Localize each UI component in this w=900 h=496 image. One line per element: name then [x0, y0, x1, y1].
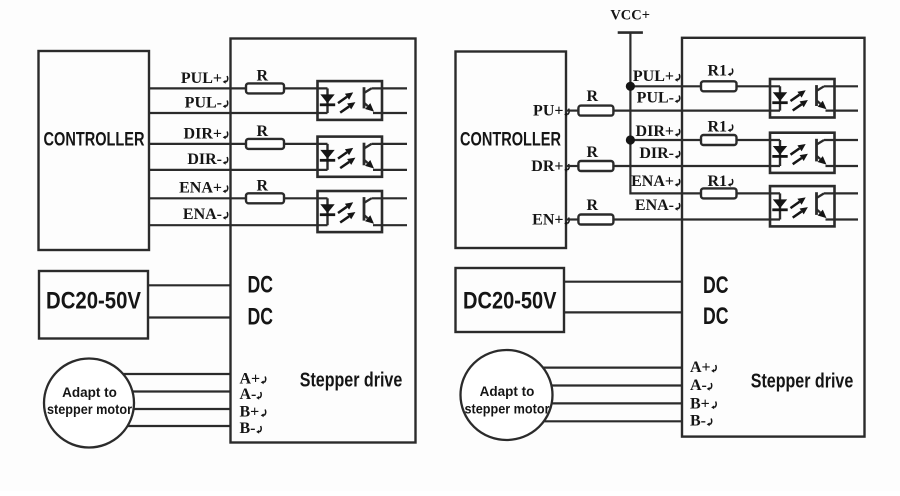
svg-text:stepper motor: stepper motor — [47, 402, 133, 417]
terminal label B- left — [240, 420, 262, 437]
value label R ena right — [586, 197, 598, 214]
value label R ena left — [256, 177, 268, 194]
wire motor A+ left — [100, 373, 231, 375]
terminal label A- right — [690, 377, 712, 394]
svg-text:VCC+: VCC+ — [610, 8, 650, 24]
resistor R1 ena — [701, 188, 737, 198]
wire PU+ resistor to opto — [613, 109, 780, 111]
svg-text:DIR-: DIR- — [639, 145, 674, 162]
resistor R pulse left — [246, 83, 284, 93]
terminal label A+ right — [690, 359, 716, 376]
svg-text:B-: B- — [690, 413, 706, 430]
net label PUL+ left — [181, 70, 228, 87]
svg-text:R: R — [256, 123, 268, 140]
resistor R dir left — [246, 139, 284, 149]
svg-text:DIR+: DIR+ — [636, 123, 674, 140]
svg-text:DC20-50V: DC20-50V — [463, 288, 557, 315]
wire U5 collector out — [824, 139, 858, 141]
svg-text:DIR+: DIR+ — [184, 126, 222, 143]
terminal label A- left — [240, 386, 262, 403]
svg-text:B+: B+ — [690, 396, 710, 413]
value label R dir right — [586, 144, 598, 161]
svg-text:R: R — [256, 67, 268, 84]
svg-text:R1: R1 — [707, 119, 727, 136]
svg-text:Adapt to: Adapt to — [62, 385, 117, 400]
svg-text:CONTROLLER: CONTROLLER — [460, 129, 561, 151]
net label DIR+ left — [184, 126, 228, 143]
wire DR+ to resistor — [566, 165, 578, 167]
controller box left — [39, 51, 150, 250]
power label VCC+ — [610, 8, 650, 24]
svg-text:PU+: PU+ — [533, 103, 563, 120]
wire DIR+ resistor to opto — [737, 139, 781, 141]
wire PU+ to resistor — [566, 109, 578, 111]
pin label EN+ — [532, 212, 569, 229]
wire motor B- left — [100, 425, 231, 427]
wire ENA+ from controller — [149, 197, 246, 199]
optocoupler U3 — [318, 191, 383, 232]
wire U1 emitter out — [373, 112, 407, 114]
wire U2 emitter out — [373, 169, 407, 171]
motor circle right — [461, 350, 553, 440]
wire motor B+ left — [100, 408, 231, 410]
svg-text:Stepper drive: Stepper drive — [751, 370, 854, 393]
DC supply box right — [456, 268, 565, 332]
optocoupler U1 — [318, 81, 383, 120]
net label ENA- left — [183, 206, 228, 223]
svg-text:R: R — [586, 197, 598, 214]
stepper drive box left — [231, 39, 416, 443]
wire U4 collector out — [824, 85, 858, 87]
svg-text:EN+: EN+ — [532, 212, 563, 229]
wire VCC vertical — [629, 33, 631, 195]
wire PUL+ from controller — [149, 87, 246, 89]
svg-text:B+: B+ — [240, 404, 260, 421]
wire DC- right — [564, 311, 682, 313]
svg-text:CONTROLLER: CONTROLLER — [44, 129, 145, 151]
wire U6 emitter out — [826, 218, 859, 220]
optocoupler U4 — [770, 79, 835, 118]
optocoupler U5 — [770, 133, 835, 173]
svg-text:A-: A- — [240, 386, 257, 403]
value label R1 dir — [707, 119, 732, 136]
resistor R dir right — [578, 161, 613, 171]
wire ENA+ resistor to opto — [737, 192, 781, 194]
net label ENA+ right — [631, 173, 680, 190]
svg-text:A+: A+ — [240, 371, 261, 388]
wire U2 collector out — [372, 143, 408, 145]
resistor R pulse right — [578, 106, 613, 116]
svg-text:Stepper drive: Stepper drive — [300, 369, 403, 392]
net label DIR+ right — [636, 123, 680, 140]
svg-text:DIR-: DIR- — [187, 151, 222, 168]
optocoupler U6 — [770, 186, 835, 226]
wire U3 collector out — [372, 197, 408, 199]
svg-text:R: R — [256, 177, 268, 194]
svg-text:R: R — [586, 144, 598, 161]
svg-text:PUL+: PUL+ — [633, 68, 674, 85]
svg-text:A-: A- — [690, 377, 707, 394]
wire motor A- left — [100, 390, 231, 392]
wire motor B+ right — [520, 402, 682, 404]
wire DIR- from controller — [149, 169, 328, 171]
wire U3 emitter out — [373, 224, 407, 226]
value label R pulse left — [256, 67, 268, 84]
pin label PU+ — [533, 103, 569, 120]
svg-text:A+: A+ — [690, 359, 711, 376]
net label ENA- right — [635, 197, 680, 214]
svg-text:DC: DC — [703, 272, 729, 299]
resistor R ena left — [246, 193, 284, 203]
svg-text:DC20-50V: DC20-50V — [46, 288, 141, 315]
svg-text:R1: R1 — [707, 63, 727, 80]
wire ENA+ resistor to opto — [285, 197, 328, 199]
net label DIR- right — [639, 145, 679, 162]
motor circle left — [44, 359, 134, 448]
wire motor B- right — [520, 420, 682, 422]
wire EN+ resistor to opto — [613, 218, 780, 220]
resistor R1 pulse — [701, 81, 737, 91]
wire ENA- from controller — [149, 224, 328, 226]
value label R pulse right — [586, 88, 598, 105]
resistor R ena right — [578, 215, 613, 225]
value label R1 ena — [707, 173, 732, 190]
wire PUL- from controller — [149, 112, 328, 114]
net label PUL- left — [185, 95, 228, 112]
net label PUL+ right — [633, 68, 680, 85]
svg-text:R: R — [586, 88, 598, 105]
svg-text:PUL+: PUL+ — [181, 70, 222, 87]
terminal label B- right — [690, 413, 712, 430]
terminal label B+ right — [690, 396, 716, 413]
wire PUL+ resistor to opto — [285, 87, 328, 89]
wire U5 emitter out — [826, 165, 859, 167]
wire DC+ right — [564, 281, 682, 283]
wire DC+ left — [148, 284, 231, 286]
pin label DR+ — [531, 158, 569, 175]
svg-text:DC: DC — [703, 303, 729, 330]
svg-text:PUL-: PUL- — [185, 95, 222, 112]
svg-text:ENA-: ENA- — [183, 206, 222, 223]
net label PUL- right — [637, 90, 680, 107]
svg-text:Adapt to: Adapt to — [480, 384, 535, 399]
VCC rail bar — [618, 31, 643, 34]
svg-text:ENA-: ENA- — [635, 197, 674, 214]
wire DC- left — [148, 316, 231, 318]
optocoupler U2 — [318, 137, 383, 177]
wire U1 collector out — [372, 87, 408, 89]
junction dot PUL+ — [626, 82, 635, 91]
resistor R1 dir — [701, 135, 737, 145]
terminal label B+ left — [240, 404, 266, 421]
svg-text:R1: R1 — [707, 173, 727, 190]
net label DIR- left — [187, 151, 227, 168]
wire U6 collector out — [824, 192, 858, 194]
value label R dir left — [256, 123, 268, 140]
svg-text:DC: DC — [248, 304, 274, 331]
wire PUL+ rail to resistor — [630, 85, 701, 87]
svg-text:DR+: DR+ — [531, 158, 563, 175]
svg-text:DC: DC — [248, 272, 274, 299]
svg-text:ENA+: ENA+ — [631, 173, 674, 190]
wire DIR+ resistor to opto — [285, 143, 328, 145]
terminal label A+ left — [240, 371, 266, 388]
wire DIR+ from controller — [149, 143, 246, 145]
wire EN+ to resistor — [566, 218, 578, 220]
svg-text:ENA+: ENA+ — [179, 180, 222, 197]
wire DIR+ rail to resistor — [630, 139, 701, 141]
svg-text:B-: B- — [240, 420, 256, 437]
wire motor A+ right — [520, 367, 682, 369]
wire U4 emitter out — [826, 109, 859, 111]
svg-text:stepper motor: stepper motor — [465, 402, 551, 417]
controller box right — [456, 52, 567, 249]
value label R1 pulse — [707, 63, 732, 80]
stepper drive box right — [682, 38, 865, 437]
svg-text:PUL-: PUL- — [637, 90, 674, 107]
DC supply box left — [39, 271, 148, 339]
junction dot DIR+ — [626, 135, 635, 144]
wire DR+ resistor to opto — [613, 165, 780, 167]
wire ENA+ rail to resistor — [630, 192, 701, 194]
net label ENA+ left — [179, 180, 228, 197]
wire PUL+ resistor to opto — [737, 85, 781, 87]
wire motor A- right — [520, 384, 682, 386]
